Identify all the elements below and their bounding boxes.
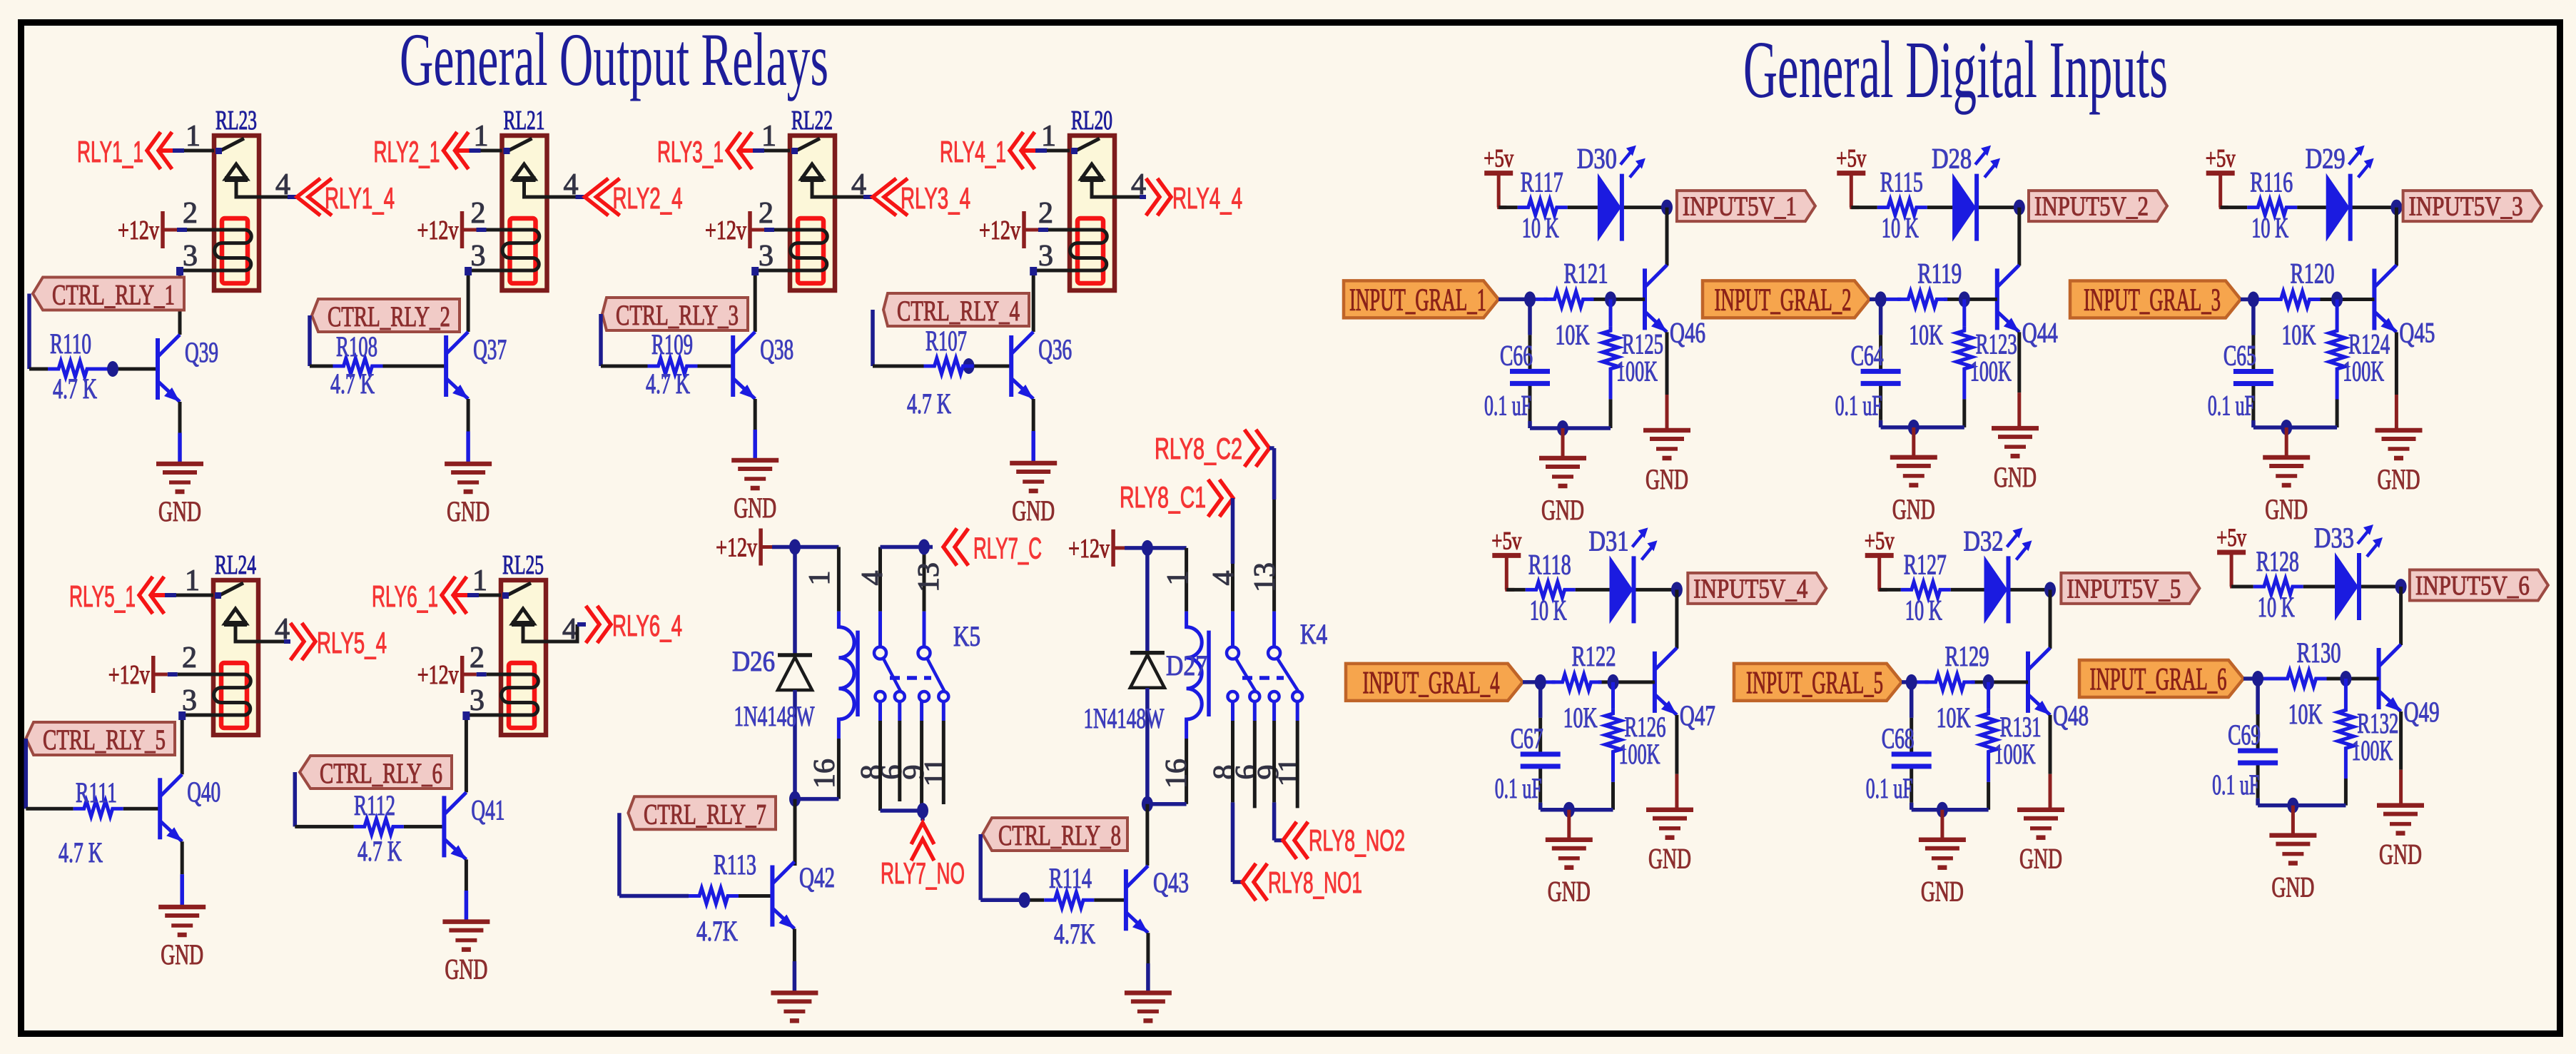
relay RL25 — [501, 580, 546, 735]
wire — [29, 368, 48, 371]
svg-text:RL20: RL20 — [1071, 106, 1112, 136]
svg-text:C67: C67 — [1511, 722, 1543, 754]
port RLY2_4 — [585, 178, 620, 216]
svg-text:R119: R119 — [1917, 257, 1962, 289]
wire — [546, 624, 577, 642]
resistor R112 — [354, 819, 404, 834]
wire — [1499, 298, 1530, 302]
wire — [2017, 332, 2021, 392]
capacitor C66 — [1510, 371, 1550, 383]
svg-text:16: 16 — [808, 759, 841, 789]
svg-text:+12v: +12v — [716, 533, 757, 563]
svg-text:100K: 100K — [2351, 734, 2393, 766]
transistor Q41 — [444, 792, 466, 859]
wire — [2399, 587, 2403, 645]
svg-text:3: 3 — [1038, 240, 1053, 273]
wire — [181, 841, 184, 874]
svg-text:GND: GND — [1012, 495, 1055, 527]
wire — [466, 715, 501, 792]
junction — [2331, 292, 2343, 308]
wire — [793, 929, 796, 962]
resistor R108 — [333, 358, 383, 374]
svg-text:4.7 K: 4.7 K — [330, 368, 375, 400]
ground — [2017, 810, 2064, 875]
svg-text:R113: R113 — [714, 848, 756, 881]
svg-text:10K: 10K — [2282, 319, 2316, 351]
junction — [789, 791, 801, 807]
svg-text:Q45: Q45 — [2399, 317, 2435, 349]
svg-text:10 K: 10 K — [2258, 591, 2295, 623]
wire — [617, 813, 622, 896]
ground — [442, 922, 490, 985]
port INPUT5V_3 — [2403, 191, 2542, 222]
svg-text:1: 1 — [1162, 571, 1195, 586]
port RLY6_4 — [586, 606, 611, 643]
svg-text:Q42: Q42 — [799, 861, 835, 893]
wire — [2258, 804, 2346, 808]
power +5v — [2206, 144, 2236, 208]
svg-text:10 K: 10 K — [1882, 212, 1919, 244]
svg-text:1: 1 — [761, 120, 776, 153]
ground — [2263, 457, 2310, 525]
svg-text:GND: GND — [447, 495, 490, 527]
wire — [1528, 299, 1532, 335]
svg-text:GND: GND — [1921, 876, 1964, 908]
svg-text:100K: 100K — [1616, 355, 1658, 387]
svg-text:RLY8_NO2: RLY8_NO2 — [1309, 824, 1405, 857]
junction — [1563, 802, 1575, 818]
wire — [1665, 332, 1669, 395]
wire — [2231, 585, 2253, 589]
capacitor C68 — [1892, 754, 1932, 766]
svg-text:D27: D27 — [1166, 649, 1207, 681]
relay RL20 — [1070, 136, 1115, 290]
svg-text:RLY8_C2: RLY8_C2 — [1155, 432, 1242, 465]
wire — [1253, 721, 1257, 808]
svg-text:CTRL_RLY_1: CTRL_RLY_1 — [52, 279, 175, 311]
svg-text:+12v: +12v — [417, 660, 459, 690]
svg-text:R114: R114 — [1049, 862, 1092, 894]
wire — [755, 270, 790, 332]
resistor R132 — [2344, 679, 2348, 706]
wire — [1567, 810, 1571, 840]
svg-text:INPUT_GRAL_3: INPUT_GRAL_3 — [2084, 283, 2221, 318]
wire — [547, 196, 576, 199]
svg-text:D29: D29 — [2306, 143, 2346, 175]
wire — [1047, 149, 1070, 153]
svg-text:4.7K: 4.7K — [696, 915, 738, 947]
power +5v — [1836, 144, 1866, 208]
relay RL23 — [214, 136, 259, 290]
svg-text:1: 1 — [1041, 120, 1056, 153]
wire — [182, 715, 213, 774]
svg-text:1: 1 — [472, 564, 487, 597]
svg-text:RLY1_4: RLY1_4 — [325, 181, 395, 215]
resistor R124 — [2336, 300, 2339, 327]
svg-text:RLY4_4: RLY4_4 — [1172, 181, 1242, 215]
wire — [2395, 333, 2398, 395]
resistor R126 — [1611, 682, 1615, 709]
junction — [1608, 674, 1619, 690]
svg-text:2: 2 — [1038, 197, 1053, 230]
wire — [1147, 802, 1187, 806]
svg-text:RLY5_4: RLY5_4 — [317, 626, 387, 659]
wire — [2395, 208, 2398, 266]
svg-text:0.1 uF: 0.1 uF — [1495, 772, 1542, 804]
svg-text:RLY6_4: RLY6_4 — [612, 609, 682, 642]
wire — [601, 365, 648, 368]
resistor R114 — [1044, 892, 1094, 908]
junction — [2390, 200, 2402, 216]
svg-text:11: 11 — [919, 758, 952, 786]
wire — [295, 825, 354, 828]
transistor Q48 — [2028, 648, 2050, 715]
svg-text:10 K: 10 K — [1522, 212, 1559, 244]
svg-text:GND: GND — [161, 938, 203, 971]
svg-text:GND: GND — [2378, 463, 2420, 495]
wire — [1568, 206, 1598, 209]
resistor R115 — [1877, 200, 1927, 216]
ground — [1890, 457, 1937, 525]
relay contacts K5 — [874, 547, 948, 721]
svg-text:RLY5_1: RLY5_1 — [69, 579, 136, 613]
wire — [978, 834, 983, 900]
resistor R122 — [1552, 674, 1602, 690]
power +12v — [979, 211, 1024, 248]
svg-text:RL22: RL22 — [791, 106, 833, 136]
wire — [1576, 588, 1610, 592]
wire — [1902, 680, 1912, 684]
svg-text:INPUT5V_4: INPUT5V_4 — [1693, 574, 1807, 604]
ground — [156, 464, 203, 527]
port RLY3_1 — [739, 148, 753, 153]
svg-text:11: 11 — [1273, 758, 1306, 786]
ground — [2377, 806, 2424, 871]
transistor Q36 — [1011, 332, 1033, 399]
wire — [2017, 208, 2021, 266]
transistor Q39 — [158, 335, 180, 402]
LED D29 — [2326, 146, 2374, 242]
junction — [963, 358, 975, 374]
wire — [754, 399, 757, 430]
svg-text:0.1 uF: 0.1 uF — [1484, 389, 1531, 421]
port INPUT_GRAL_3 — [2070, 281, 2241, 318]
svg-text:R117: R117 — [1521, 166, 1563, 198]
svg-text:+5v: +5v — [2216, 523, 2246, 552]
power +5v — [2216, 523, 2246, 587]
port INPUT5V_4 — [1688, 573, 1826, 604]
net label CTRL_RLY_4 — [883, 293, 1029, 327]
svg-text:Q48: Q48 — [2053, 699, 2089, 731]
power +12v — [417, 656, 462, 693]
ground — [445, 464, 492, 527]
ground — [2269, 836, 2316, 903]
svg-text:+5v: +5v — [1484, 144, 1513, 173]
port INPUT5V_1 — [1677, 191, 1815, 222]
svg-text:RLY3_4: RLY3_4 — [901, 181, 970, 215]
wire — [180, 270, 214, 335]
power +12v — [118, 211, 163, 248]
port RLY7_NO — [911, 823, 934, 861]
wire — [1675, 589, 1678, 649]
svg-text:INPUT5V_5: INPUT5V_5 — [2067, 574, 2181, 604]
svg-text:GND: GND — [445, 953, 487, 985]
svg-text:1: 1 — [803, 571, 836, 586]
svg-text:R115: R115 — [1880, 166, 1923, 198]
svg-text:R116: R116 — [2250, 166, 2293, 198]
svg-text:CTRL_RLY_6: CTRL_RLY_6 — [320, 757, 442, 789]
resistor R125 — [1609, 299, 1613, 326]
wire — [467, 399, 470, 432]
svg-text:Q44: Q44 — [2022, 316, 2058, 348]
wire — [462, 673, 477, 677]
junction — [2248, 292, 2259, 308]
wire — [2303, 585, 2335, 589]
wire — [27, 294, 31, 370]
wire — [1675, 715, 1678, 774]
net label CTRL_RLY_6 — [300, 756, 452, 789]
svg-text:C64: C64 — [1851, 339, 1884, 371]
port RLY4_4 — [1146, 178, 1171, 216]
svg-text:R120: R120 — [2291, 258, 2335, 290]
svg-text:GND: GND — [2265, 493, 2308, 525]
port RLY5_4 — [290, 623, 315, 660]
port INPUT_GRAL_1 — [1344, 280, 1499, 318]
svg-text:INPUT_GRAL_4: INPUT_GRAL_4 — [1363, 665, 1500, 700]
wire — [465, 859, 468, 891]
svg-text:4: 4 — [1207, 571, 1240, 586]
net label CTRL_RLY_2 — [312, 299, 460, 333]
wire — [1185, 548, 1188, 612]
svg-text:4.7 K: 4.7 K — [358, 835, 402, 867]
svg-text:RLY7_C: RLY7_C — [973, 532, 1042, 565]
wire — [1113, 546, 1125, 549]
junction — [1142, 796, 1153, 812]
svg-text:RLY2_1: RLY2_1 — [374, 135, 440, 168]
resistor R128 — [2253, 579, 2303, 594]
wire — [2251, 300, 2256, 335]
LED D32 — [1984, 527, 2032, 624]
svg-text:Q40: Q40 — [187, 776, 220, 808]
svg-text:R118: R118 — [1528, 548, 1571, 580]
wire — [1851, 206, 1877, 209]
svg-text:R112: R112 — [354, 789, 395, 821]
svg-text:16: 16 — [1160, 759, 1193, 789]
junction — [2395, 579, 2407, 594]
svg-text:D28: D28 — [1932, 143, 1972, 175]
wire — [1665, 208, 1669, 266]
wire — [259, 196, 288, 199]
wire — [176, 594, 213, 597]
svg-text:Q46: Q46 — [1670, 316, 1705, 348]
wire — [153, 673, 168, 677]
svg-text:GND: GND — [158, 495, 201, 527]
svg-text:2: 2 — [759, 197, 774, 230]
junction — [107, 361, 118, 377]
ground — [1643, 430, 1690, 495]
wire — [1870, 298, 1881, 302]
net label CTRL_RLY_5 — [26, 722, 175, 756]
svg-text:+12v: +12v — [1068, 534, 1110, 564]
svg-text:10K: 10K — [1909, 318, 1943, 350]
svg-text:2: 2 — [471, 197, 486, 230]
svg-text:1N4148W: 1N4148W — [1084, 702, 1165, 734]
svg-text:100K: 100K — [1970, 355, 2012, 387]
wire — [1024, 228, 1038, 232]
svg-text:C66: C66 — [1500, 339, 1533, 371]
svg-text:General Output Relays: General Output Relays — [400, 18, 828, 101]
svg-text:+5v: +5v — [2206, 144, 2236, 173]
svg-text:GND: GND — [1548, 876, 1591, 908]
wire — [1881, 425, 1964, 430]
svg-text:Q43: Q43 — [1153, 866, 1189, 898]
svg-text:10K: 10K — [1937, 701, 1971, 734]
wire — [1530, 426, 1611, 430]
wire — [462, 228, 477, 232]
ground — [1539, 458, 1586, 526]
resistor R119 — [1897, 291, 1947, 307]
wire — [837, 739, 841, 799]
svg-text:Q37: Q37 — [473, 333, 507, 365]
port RLY5_1 — [151, 593, 165, 597]
wire — [258, 640, 284, 644]
wire — [873, 365, 924, 368]
relay RL22 — [790, 136, 835, 290]
svg-text:+12v: +12v — [705, 216, 746, 245]
svg-text:+12v: +12v — [118, 216, 159, 245]
relay coil K5 — [838, 612, 858, 739]
net label CTRL_RLY_1 — [33, 278, 184, 311]
net label CTRL_RLY_8 — [983, 818, 1127, 851]
relay RL24 — [213, 580, 258, 735]
resistor R127 — [1901, 582, 1951, 597]
power +12v — [1068, 529, 1113, 567]
svg-text:RL23: RL23 — [215, 106, 257, 136]
wire — [310, 365, 333, 368]
ground — [1992, 428, 2039, 493]
svg-text:INPUT_GRAL_5: INPUT_GRAL_5 — [1746, 665, 1883, 700]
wire — [1910, 682, 1914, 718]
svg-text:General Digital Inputs: General Digital Inputs — [1743, 24, 2168, 115]
svg-text:Q47: Q47 — [1680, 699, 1715, 731]
svg-text:R130: R130 — [2297, 637, 2341, 669]
svg-text:+5v: +5v — [1865, 526, 1895, 554]
ground — [771, 993, 818, 1020]
wire — [1032, 399, 1035, 431]
junction — [1019, 892, 1030, 908]
wire — [2256, 679, 2260, 714]
resistor R123 — [1962, 299, 1966, 326]
svg-text:R122: R122 — [1572, 640, 1616, 672]
capacitor C67 — [1521, 754, 1561, 766]
junction — [918, 539, 930, 555]
svg-text:Q49: Q49 — [2404, 696, 2440, 728]
wire — [2253, 425, 2337, 430]
junction — [2287, 798, 2298, 814]
port INPUT_GRAL_4 — [1346, 664, 1523, 701]
svg-text:3: 3 — [183, 240, 198, 273]
ground — [2375, 430, 2423, 495]
svg-text:INPUT5V_1: INPUT5V_1 — [1683, 192, 1797, 222]
svg-text:RL24: RL24 — [215, 550, 256, 580]
svg-text:3: 3 — [759, 240, 774, 273]
wire — [2399, 711, 2403, 770]
svg-text:Q39: Q39 — [185, 336, 218, 368]
port RLY8_NO1 — [1242, 863, 1267, 901]
resistor R110 — [48, 361, 98, 377]
wire — [1269, 446, 1274, 450]
port RLY1_1 — [158, 148, 173, 153]
wire — [837, 547, 841, 612]
resistor R113 — [689, 888, 739, 904]
port RLY6_1 — [453, 593, 467, 597]
port INPUT_GRAL_2 — [1703, 280, 1870, 318]
svg-text:K4: K4 — [1300, 618, 1327, 650]
resistor R121 — [1544, 291, 1594, 307]
power +12v — [108, 656, 153, 693]
svg-text:K5: K5 — [953, 620, 980, 652]
svg-text:10K: 10K — [1556, 318, 1590, 350]
svg-text:INPUT_GRAL_6: INPUT_GRAL_6 — [2090, 662, 2227, 696]
power +5v — [1484, 144, 1513, 208]
svg-text:2: 2 — [183, 197, 198, 230]
svg-text:RLY3_1: RLY3_1 — [657, 135, 724, 168]
svg-text:C65: C65 — [2223, 340, 2256, 372]
capacitor C65 — [2233, 372, 2273, 384]
wire — [163, 228, 177, 232]
wire — [1499, 206, 1518, 209]
svg-text:D31: D31 — [1589, 525, 1629, 557]
wire — [881, 545, 925, 549]
svg-text:GND: GND — [1541, 494, 1584, 526]
transistor Q46 — [1645, 265, 1667, 332]
power +5v — [1865, 526, 1895, 589]
wire — [1231, 498, 1235, 564]
transistor Q38 — [733, 332, 755, 399]
svg-text:CTRL_RLY_2: CTRL_RLY_2 — [328, 300, 450, 333]
svg-text:0.1 uF: 0.1 uF — [1866, 772, 1913, 804]
port RLY1_4 — [297, 178, 332, 216]
svg-text:RLY8_C1: RLY8_C1 — [1120, 480, 1206, 514]
svg-text:R127: R127 — [1904, 548, 1947, 580]
wire — [1115, 196, 1140, 199]
wire — [26, 807, 73, 811]
svg-text:GND: GND — [1892, 493, 1935, 525]
LED D31 — [1610, 527, 1658, 624]
junction — [1906, 674, 1917, 690]
wire — [481, 149, 502, 153]
svg-text:RLY7_NO: RLY7_NO — [881, 856, 965, 890]
svg-text:GND: GND — [1994, 461, 2037, 493]
transistor Q45 — [2374, 265, 2396, 333]
svg-text:R108: R108 — [336, 330, 377, 363]
resistor R116 — [2247, 200, 2297, 216]
svg-text:INPUT5V_2: INPUT5V_2 — [2034, 192, 2149, 222]
wire — [2297, 206, 2326, 209]
transistor Q47 — [1655, 648, 1677, 715]
resistor R129 — [1925, 674, 1975, 690]
diode D27 — [1145, 548, 1150, 653]
svg-text:100K: 100K — [1994, 738, 2036, 770]
wire — [793, 799, 797, 866]
svg-text:CTRL_RLY_3: CTRL_RLY_3 — [616, 299, 739, 331]
wire — [835, 196, 863, 199]
svg-text:+5v: +5v — [1836, 144, 1866, 173]
port INPUT5V_6 — [2410, 570, 2548, 602]
svg-text:R129: R129 — [1945, 640, 1989, 672]
svg-text:0.1 uF: 0.1 uF — [1835, 389, 1882, 421]
wire — [2221, 206, 2248, 209]
